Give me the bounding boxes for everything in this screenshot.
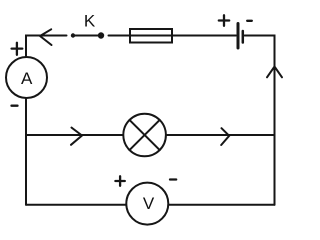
svg-text:A: A <box>21 69 33 88</box>
svg-text:V: V <box>143 194 155 213</box>
svg-text:K: K <box>84 12 96 31</box>
